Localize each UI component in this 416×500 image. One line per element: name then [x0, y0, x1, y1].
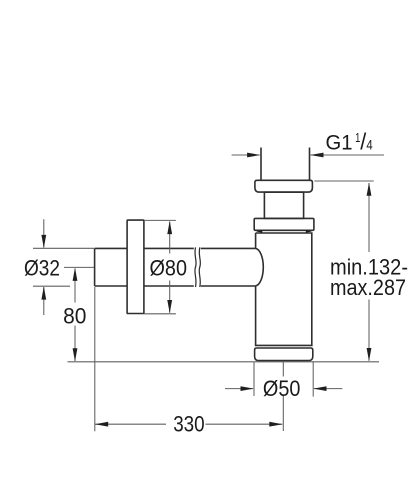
- svg-text:Ø50: Ø50: [263, 376, 301, 401]
- svg-text:Ø80: Ø80: [150, 256, 188, 281]
- svg-text:330: 330: [173, 412, 205, 437]
- svg-text:G1: G1: [326, 131, 353, 155]
- svg-text:max.287: max.287: [330, 275, 406, 300]
- svg-text:80: 80: [63, 303, 86, 328]
- svg-text:Ø32: Ø32: [24, 256, 60, 281]
- svg-text:4: 4: [366, 138, 373, 153]
